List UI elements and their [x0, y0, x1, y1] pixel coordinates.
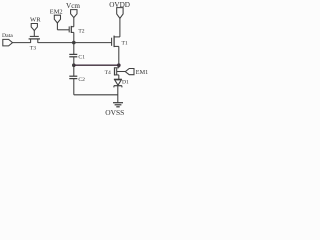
port Data — [3, 39, 13, 46]
transistor T3 — [29, 31, 40, 43]
svg-text:C2: C2 — [78, 77, 85, 83]
wire C2 bottom rail — [74, 94, 118, 96]
svg-text:OVDD: OVDD — [109, 1, 130, 9]
port OVDD — [117, 8, 123, 19]
node B junction dot — [72, 63, 76, 67]
svg-text:T1: T1 — [122, 41, 128, 47]
svg-text:Vcm: Vcm — [66, 2, 80, 10]
wire node B to T1 drain (maroon) — [74, 64, 119, 66]
node A junction dot — [72, 41, 76, 45]
capacitor C2 — [69, 65, 77, 95]
svg-text:EM2: EM2 — [50, 9, 63, 16]
svg-text:EM1: EM1 — [136, 69, 148, 76]
transistor T4 — [115, 67, 126, 79]
port EM2 — [54, 15, 60, 23]
port WR — [31, 24, 37, 31]
svg-text:OVSS: OVSS — [105, 108, 124, 117]
transistor T2 — [57, 18, 73, 43]
svg-text:D1: D1 — [122, 80, 129, 86]
wire D1 cathode to ground — [117, 86, 119, 103]
port Vcm — [71, 10, 77, 18]
wire T1 drain down right rail — [118, 46, 120, 67]
junction dot at right rail — [117, 63, 121, 67]
svg-text:T2: T2 — [78, 29, 84, 35]
svg-text:T4: T4 — [105, 70, 111, 76]
wire EM2 to T2 gate — [56, 23, 58, 30]
capacitor C1 — [69, 43, 77, 66]
port EM1 — [125, 69, 134, 75]
wire Data to T3 source — [12, 42, 30, 44]
svg-text:T3: T3 — [30, 46, 36, 52]
svg-text:WR: WR — [30, 17, 41, 24]
svg-text:Data: Data — [2, 33, 13, 39]
transistor T1 — [112, 36, 120, 48]
svg-text:C1: C1 — [78, 54, 85, 60]
wire T3 drain to node A to T1 gate — [38, 42, 112, 44]
ground OVSS symbol — [113, 103, 123, 107]
wire OVDD to T1 source — [119, 18, 121, 37]
diode D1 (OLED) — [114, 79, 122, 87]
